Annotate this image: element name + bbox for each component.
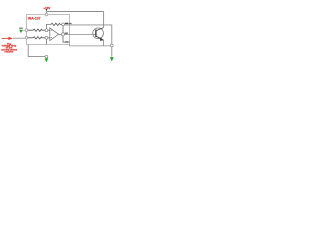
wire input — [13, 37, 25, 39]
wire emitter net — [70, 44, 112, 46]
wire +15V rail — [47, 11, 104, 13]
node A junction — [45, 29, 48, 32]
label R3 value blob — [65, 23, 69, 24]
wire op-amp input stubs — [48, 30, 50, 38]
wire In+ gnd — [23, 29, 26, 31]
node +15V supply arrow — [46, 9, 48, 11]
wire output — [59, 33, 62, 35]
node B junction — [45, 36, 48, 39]
node In- terminal — [25, 37, 28, 40]
op-amp U1A — [50, 28, 59, 41]
wire V+ stub — [46, 12, 48, 15]
wire ref drop — [46, 39, 48, 44]
node emitter junction — [110, 44, 113, 47]
node In+ terminal — [25, 29, 28, 32]
node gnd junction — [45, 55, 48, 58]
label sense blob — [65, 41, 69, 42]
wire V- to ground — [28, 44, 45, 56]
wire emitter — [103, 40, 105, 46]
wire sense net — [64, 25, 111, 57]
node OUT junction — [62, 33, 65, 36]
wire collector — [103, 12, 105, 28]
node C junction — [62, 23, 65, 26]
resistor R1 (In+ 25k) — [28, 29, 45, 31]
wire feedback riser — [47, 24, 52, 28]
ground left — [19, 27, 23, 30]
node V+ terminal — [45, 13, 48, 16]
resistor R2 (In- 25k) — [28, 37, 45, 39]
ground center — [45, 58, 49, 62]
wire sense drop — [63, 26, 70, 42]
ground right — [110, 57, 114, 61]
input port arrow (red) — [2, 37, 9, 39]
resistor R3 (feedback 25k) — [51, 23, 62, 25]
IC box U1 INA-137 — [27, 15, 70, 45]
label out blob — [65, 33, 68, 34]
transistor Q1 — [93, 28, 104, 39]
label annotation (red) — [1, 43, 18, 54]
svg-text:INA-137: INA-137 — [28, 17, 41, 21]
svg-text:resistor: resistor — [5, 50, 14, 53]
wire base net — [65, 33, 96, 35]
